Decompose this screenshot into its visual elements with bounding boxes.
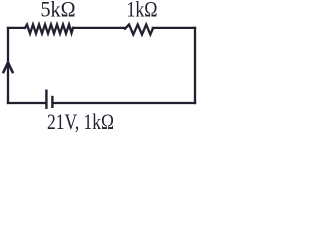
wire right vertical (194, 28, 196, 103)
current arrow head (4, 63, 13, 73)
battery B1 short plate (51, 97, 53, 107)
wire bottom right (54, 102, 195, 104)
wire left vertical (7, 28, 9, 103)
svg-text:5kΩ: 5kΩ (41, 0, 76, 22)
wire top right (153, 27, 195, 29)
wire top middle (73, 27, 125, 29)
wire bottom left (8, 102, 46, 104)
svg-text:1kΩ: 1kΩ (127, 0, 158, 22)
wire top left lead (8, 27, 25, 29)
resistor R1 5kohm zigzag (25, 25, 73, 34)
battery B1 long plate (45, 91, 47, 108)
svg-text:21V, 1kΩ: 21V, 1kΩ (47, 109, 114, 134)
resistor R2 1kohm zigzag (125, 25, 153, 35)
